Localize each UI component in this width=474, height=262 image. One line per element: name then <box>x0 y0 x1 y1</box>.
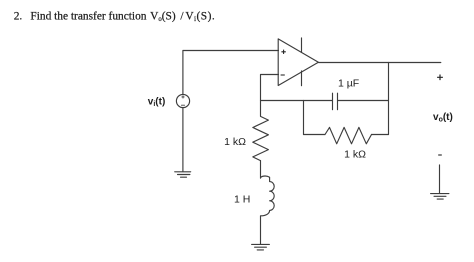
svg-text:Find the transfer function: Find the transfer function <box>30 10 146 22</box>
label op-amp minus <box>281 74 285 76</box>
wire source bottom to ground <box>182 108 184 172</box>
op-amp power pin bottom <box>301 71 303 86</box>
svg-text:vi(t): vi(t) <box>148 96 166 108</box>
ground G3 <box>431 194 449 200</box>
op-amp power pin top <box>301 38 303 52</box>
svg-text:Vo(S): Vo(S) <box>150 10 176 23</box>
svg-text:2.: 2. <box>14 10 23 22</box>
source minus mark <box>181 104 184 106</box>
wire output <box>318 62 440 64</box>
label output plus <box>437 75 443 81</box>
wire resistor branch right <box>372 134 389 136</box>
wire resistor branch left <box>304 134 326 136</box>
inductor L1 1H <box>261 161 275 245</box>
wire output terminal minus to ground G3 <box>439 165 441 194</box>
resistor R1 1kOhm vertical <box>253 101 269 161</box>
source plus mark <box>182 96 184 98</box>
svg-text:Vi(S).: Vi(S). <box>185 10 215 23</box>
svg-text:1 kΩ: 1 kΩ <box>224 136 246 148</box>
wire capacitor line right <box>338 100 389 102</box>
wire junction drop to resistor branch <box>303 101 305 135</box>
label output minus <box>438 154 442 156</box>
wire input top: source top to op-amp + input <box>183 51 279 95</box>
wire feedback right vertical <box>388 63 390 135</box>
svg-text:vo(t): vo(t) <box>433 112 453 124</box>
ground G1 <box>175 172 191 177</box>
wire inverting input <box>261 75 279 101</box>
wire capacitor line left <box>261 100 333 102</box>
svg-text:1 kΩ: 1 kΩ <box>344 149 366 161</box>
capacitor C1 plates <box>333 93 338 110</box>
source V1 vi(t) <box>176 94 189 107</box>
ground G2 <box>252 244 270 250</box>
svg-text:1 H: 1 H <box>234 194 250 206</box>
op-amp U1 <box>278 39 318 86</box>
resistor R2 1kOhm horizontal <box>325 127 372 143</box>
label op-amp plus <box>281 50 285 54</box>
svg-text:1 µF: 1 µF <box>338 78 359 90</box>
